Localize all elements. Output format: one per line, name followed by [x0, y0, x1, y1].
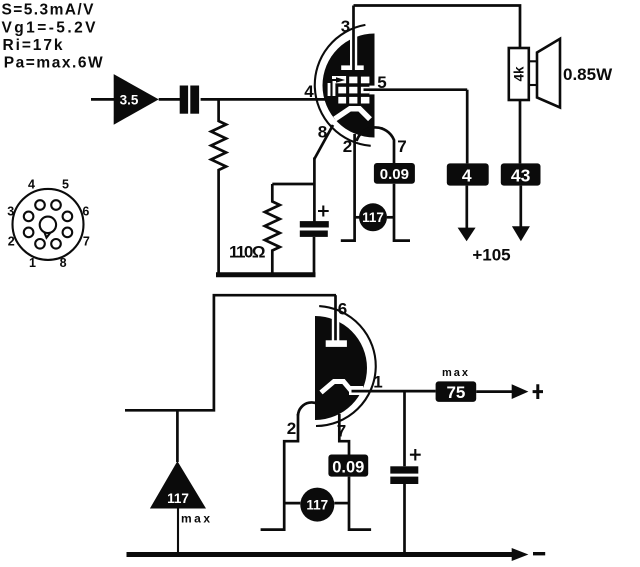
wire cathode pin1 output — [352, 390, 436, 393]
tube V2 envelope arc — [316, 306, 376, 426]
svg-text:7: 7 — [83, 235, 90, 249]
arrow output plus — [512, 384, 529, 399]
meter circle 117 top — [355, 203, 394, 231]
svg-text:5: 5 — [377, 73, 386, 92]
meter circle 117 bottom — [284, 488, 349, 522]
socket outline — [13, 189, 84, 260]
wire pin 7 below box — [394, 184, 410, 241]
resistor R1 grid leak — [211, 99, 226, 274]
output junction drop — [403, 391, 406, 466]
tube V1 pin5 channel — [369, 86, 376, 95]
box 43 — [501, 163, 541, 185]
ground bus bottom — [127, 552, 514, 557]
arrow down from 43 — [512, 186, 530, 242]
svg-text:6: 6 — [338, 300, 347, 319]
wire triangle to bus — [177, 509, 179, 557]
svg-text:4: 4 — [304, 82, 314, 101]
tube V1 anode bar — [341, 65, 364, 70]
svg-text:max: max — [181, 512, 213, 526]
svg-text:4k: 4k — [512, 66, 527, 82]
label minus — [533, 552, 545, 555]
svg-text:max: max — [442, 367, 470, 379]
socket center key hole — [40, 217, 56, 233]
tube V2 anode bar — [326, 340, 347, 347]
svg-text:3: 3 — [7, 205, 14, 219]
wire screen pin 5 — [364, 88, 468, 91]
svg-text:43: 43 — [511, 165, 531, 185]
svg-text:3.5: 3.5 — [120, 93, 139, 108]
capacitor C3 electrolytic — [390, 449, 420, 557]
wire pin 2 — [341, 134, 355, 241]
wire pin 7 below box — [349, 477, 371, 530]
ground bus top section — [216, 272, 316, 277]
svg-text:4: 4 — [462, 165, 472, 185]
svg-text:Vg1=-5.2V: Vg1=-5.2V — [2, 19, 97, 36]
svg-text:117: 117 — [362, 210, 384, 225]
svg-text:0.85W: 0.85W — [563, 65, 613, 84]
svg-text:7: 7 — [397, 137, 406, 156]
mains source triangle 117 — [150, 410, 206, 508]
tube V2 cathode channel — [349, 386, 363, 395]
tube V2 pin6 lead inside — [334, 316, 337, 349]
wire triangle to C1 — [159, 98, 180, 101]
tube V2 pin6 channel — [332, 316, 340, 341]
tube V2 cathode chevron — [321, 382, 352, 393]
svg-text:4: 4 — [28, 177, 35, 191]
wire input lead — [91, 98, 114, 101]
svg-text:6: 6 — [82, 205, 89, 219]
svg-text:110Ω: 110Ω — [229, 243, 266, 262]
socket pin holes — [24, 200, 72, 248]
wire speaker to 43 box — [519, 100, 522, 163]
svg-text:7: 7 — [337, 422, 346, 441]
wire pin 8 lead — [314, 125, 333, 159]
svg-text:1: 1 — [373, 373, 382, 392]
box 4 — [447, 163, 489, 185]
svg-text:+105: +105 — [472, 246, 510, 265]
svg-text:8: 8 — [60, 256, 67, 270]
label plus — [533, 384, 543, 399]
wire pin 7 heater — [339, 414, 349, 455]
svg-text:0.09: 0.09 — [332, 458, 364, 476]
input source triangle 3.5 — [114, 74, 159, 125]
svg-text:2: 2 — [287, 419, 296, 438]
svg-text:3: 3 — [341, 17, 350, 36]
wire cathode hook to pin 7 — [357, 127, 395, 163]
svg-text:S=5.3mA/V: S=5.3mA/V — [2, 2, 95, 19]
wire cathode node horizontal — [272, 183, 314, 186]
arrow down from 4 — [458, 186, 476, 242]
tube V1 grid dashes — [332, 76, 369, 104]
wire C1 to grid pin 4 — [201, 98, 332, 101]
box 0.09 bottom — [328, 455, 368, 477]
wire mains stub — [125, 295, 336, 410]
wire anode pin 3 — [352, 6, 355, 73]
speaker horn — [529, 39, 560, 108]
tube V2 body half-disk — [315, 316, 367, 420]
capacitor C2 cathode electrolytic — [300, 206, 329, 277]
svg-text:Ri=17k: Ri=17k — [3, 37, 63, 54]
wire anode pin 6 — [334, 295, 337, 341]
svg-text:2: 2 — [8, 235, 15, 249]
tube V1 cathode chevron — [335, 109, 370, 120]
box 75 — [436, 381, 477, 402]
svg-text:5: 5 — [62, 177, 69, 191]
box 0.09 top — [374, 163, 415, 184]
tube V1 envelope arc — [315, 25, 371, 146]
svg-text:8: 8 — [318, 122, 327, 141]
speaker coil 4k — [509, 48, 529, 100]
tube V1 body half-disk — [323, 34, 375, 138]
wire 75 to arrow — [476, 390, 513, 393]
wire pin 2 heater — [261, 414, 298, 530]
capacitor C1 coupling — [180, 86, 199, 114]
wire pin5 drop to 4 box — [466, 90, 469, 164]
svg-text:0.09: 0.09 — [380, 166, 409, 183]
svg-text:75: 75 — [446, 383, 465, 402]
heater arch pin2 — [298, 402, 324, 415]
svg-text:2: 2 — [343, 137, 352, 156]
svg-text:117: 117 — [167, 491, 189, 506]
tube V1 g1 lead channel — [328, 83, 336, 96]
resistor R2 cathode 110 ohm — [265, 184, 280, 274]
svg-text:Pa=max.6W: Pa=max.6W — [4, 54, 103, 71]
wire cathode node vertical — [313, 158, 316, 222]
wire anode top rail — [354, 6, 521, 49]
arrow bus minus — [512, 548, 529, 561]
svg-text:1: 1 — [29, 256, 36, 270]
svg-text:117: 117 — [306, 498, 328, 513]
tube V1 pin3 channel — [350, 33, 357, 66]
tube V1 g1 lead — [332, 77, 346, 99]
